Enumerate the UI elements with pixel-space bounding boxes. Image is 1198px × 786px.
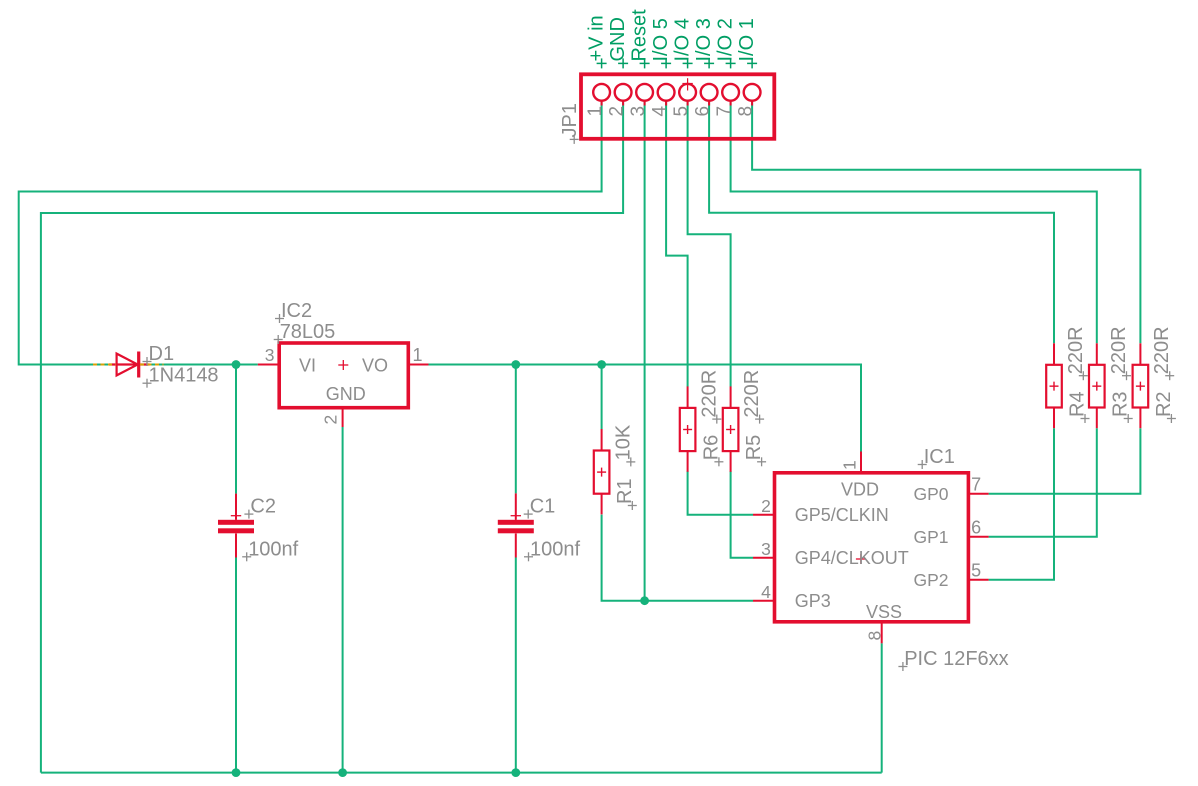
- svg-text:220R: 220R: [741, 370, 763, 418]
- R4 name label: [1067, 391, 1090, 423]
- IC1 pin number 6: [971, 518, 981, 538]
- C2 value label 100nf: [242, 538, 298, 561]
- IC1 pin name GP2: [913, 570, 948, 590]
- svg-text:GP0: GP0: [913, 484, 948, 504]
- JP1 part origin cross at pin5: [682, 78, 692, 90]
- svg-text:I/O 4: I/O 4: [672, 18, 694, 61]
- svg-text:C2: C2: [250, 496, 276, 518]
- svg-text:7: 7: [714, 106, 735, 117]
- IC2 part origin cross (red): [338, 360, 348, 370]
- wire JP1 pin8 to R2 top: [752, 101, 1140, 344]
- svg-text:GND: GND: [607, 17, 629, 61]
- wire R6 bottom to IC1 GP5 pin2: [688, 471, 753, 515]
- svg-text:220R: 220R: [1108, 326, 1130, 374]
- wire JP1 pin3 Reset down to GP3 node: [644, 101, 646, 601]
- svg-text:6: 6: [693, 106, 714, 117]
- wire R1 bottom to IC1 GP3 pin4: [602, 515, 753, 601]
- IC1 pin name GP3: [795, 591, 831, 611]
- JP1 net name labels (+V in GND Reset I/O): [586, 9, 759, 69]
- svg-text:R1: R1: [614, 478, 636, 504]
- svg-text:2: 2: [321, 415, 341, 425]
- IC1 pin number 1: [840, 460, 860, 470]
- svg-text:VSS: VSS: [866, 602, 902, 622]
- svg-text:100nf: 100nf: [248, 538, 298, 560]
- svg-text:10K: 10K: [612, 424, 634, 460]
- junction C2 / GND rail: [232, 768, 241, 777]
- D1 value label 1N4148: [143, 365, 219, 388]
- wire regulator VO to VDD rail with branches: [429, 365, 862, 452]
- svg-text:1: 1: [413, 345, 423, 365]
- IC2 reference label: [275, 300, 312, 323]
- resistor R4 220R: [1046, 343, 1062, 428]
- svg-text:220R: 220R: [1151, 326, 1173, 374]
- svg-text:PIC 12F6xx: PIC 12F6xx: [904, 648, 1008, 670]
- resistor R6 220R: [680, 386, 696, 471]
- wire IC2 GND pin to bottom rail: [342, 427, 344, 773]
- svg-text:R5: R5: [743, 435, 765, 461]
- connector JP1: [581, 74, 774, 139]
- R2 value label 220R: [1151, 326, 1174, 380]
- svg-text:8: 8: [736, 106, 757, 117]
- IC1 pin name GP0: [913, 484, 948, 504]
- IC2 pin name VI: [299, 356, 316, 376]
- wire JP1 pin5 to R5 top: [688, 101, 731, 387]
- svg-text:Reset: Reset: [629, 9, 651, 62]
- svg-text:D1: D1: [149, 343, 175, 365]
- svg-text:1N4148: 1N4148: [149, 365, 219, 387]
- svg-text:R3: R3: [1110, 391, 1132, 417]
- wire IC1 VSS to bottom rail: [881, 643, 883, 772]
- svg-text:5: 5: [971, 561, 981, 581]
- svg-text:3: 3: [761, 539, 771, 559]
- IC1 pin number 8: [865, 631, 885, 641]
- R3 value label 220R: [1108, 326, 1131, 380]
- svg-text:4: 4: [761, 582, 771, 602]
- R1 name label: [614, 478, 637, 510]
- IC2 pin name GND: [326, 384, 366, 404]
- svg-text:5: 5: [671, 106, 692, 117]
- IC2 pin name VO: [362, 356, 388, 376]
- D1 name label: [143, 343, 175, 366]
- IC2 value label 78L05: [274, 321, 336, 344]
- resistor R2 220R: [1133, 343, 1149, 428]
- IC1 pin name VDD: [841, 480, 879, 500]
- wire C2 branch down from +V input node: [235, 365, 237, 494]
- IC1 value label PIC 12F6xx: [898, 648, 1008, 671]
- svg-text:GP3: GP3: [795, 591, 831, 611]
- C2 name label: [244, 496, 276, 519]
- capacitor C2 100nf: [218, 494, 254, 558]
- svg-text:78L05: 78L05: [280, 321, 336, 343]
- svg-text:6: 6: [971, 518, 981, 538]
- junction 5V rail / C1 node: [511, 360, 520, 369]
- wire IC1 GP1 pin6 to R3 bottom: [989, 428, 1097, 536]
- wire IC1 GP0 pin7 to R2 bottom: [989, 428, 1141, 493]
- junction Reset / GP3 node: [640, 596, 649, 605]
- wire R1 top branch from 5V rail: [601, 365, 603, 430]
- junction IC2 GND / GND rail: [338, 768, 347, 777]
- IC2 pin number 1: [413, 345, 423, 365]
- capacitor C1 100nf: [498, 493, 534, 557]
- wire segment diode anode feed: [94, 364, 110, 366]
- wire R5 bottom to IC1 GP4 pin3: [731, 471, 753, 558]
- IC1 pin name VSS: [866, 602, 902, 622]
- svg-text:VI: VI: [299, 356, 316, 376]
- svg-text:1: 1: [585, 106, 606, 117]
- IC1 part origin cross (red): [856, 554, 866, 564]
- IC1 pin number 2: [761, 496, 771, 516]
- resistor R3 220R: [1089, 343, 1105, 428]
- IC1 pin name GP5/CLKIN: [795, 505, 889, 525]
- svg-text:R6: R6: [700, 435, 722, 461]
- C1 value label 100nf: [524, 538, 580, 561]
- wire C1 branch down from 5V rail: [515, 365, 517, 494]
- wire JP1 pin6 to R4 top: [709, 101, 1054, 344]
- svg-text:3: 3: [265, 345, 275, 365]
- C1 name label: [524, 496, 556, 519]
- junction 5V rail / R1 node: [597, 360, 606, 369]
- svg-text:GND: GND: [326, 384, 366, 404]
- svg-text:I/O 1: I/O 1: [736, 18, 758, 61]
- svg-text:GP5/CLKIN: GP5/CLKIN: [795, 505, 889, 525]
- wire C2 bottom to GND rail: [235, 558, 237, 773]
- svg-text:220R: 220R: [698, 370, 720, 418]
- R4 value label 220R: [1065, 326, 1088, 380]
- R5 value label 220R: [741, 370, 764, 424]
- svg-text:1: 1: [840, 460, 860, 470]
- diode D1 1N4148: [109, 352, 150, 378]
- svg-text:GP2: GP2: [913, 570, 948, 590]
- svg-text:I/O 3: I/O 3: [693, 18, 715, 61]
- svg-text:GP4/CLKOUT: GP4/CLKOUT: [795, 548, 909, 568]
- IC1 pin number 4: [761, 582, 771, 602]
- wire JP1 pin2 to bottom GND rail (net GND): [41, 101, 623, 773]
- svg-text:2: 2: [607, 106, 628, 117]
- svg-text:4: 4: [650, 106, 671, 117]
- svg-text:+V in: +V in: [586, 15, 608, 61]
- IC1 pin number 7: [971, 475, 981, 495]
- svg-text:IC1: IC1: [924, 446, 955, 468]
- JP1 reference label: [559, 103, 581, 144]
- R1 value label 10K: [612, 424, 635, 466]
- IC2 pin number 3: [265, 345, 275, 365]
- svg-text:7: 7: [971, 475, 981, 495]
- svg-text:JP1: JP1: [559, 103, 581, 137]
- svg-text:GP1: GP1: [913, 527, 948, 547]
- junction +V input / C2 / D1 node: [232, 360, 241, 369]
- IC IC1 PIC 12F6xx body: [753, 452, 989, 644]
- diode pin overlap marks (yellow): [93, 364, 164, 366]
- resistor R5 220R: [723, 386, 739, 471]
- resistor R1 10K: [594, 429, 610, 514]
- R3 name label: [1110, 391, 1133, 423]
- svg-text:C1: C1: [530, 496, 556, 518]
- IC1 pin name GP4/CLKOUT: [795, 548, 909, 568]
- op-amp style box IC2 voltage regulator: [258, 343, 429, 427]
- svg-text:R2: R2: [1153, 391, 1175, 417]
- wire JP1 pin1 to +V input rail (net +V in): [19, 101, 602, 365]
- svg-text:2: 2: [761, 496, 771, 516]
- junction C1 / GND rail: [511, 768, 520, 777]
- R6 value label 220R: [698, 370, 721, 424]
- JP1 pin red stubs below pads: [602, 101, 753, 106]
- IC1 pin number 3: [761, 539, 771, 559]
- IC1 pin name GP1: [913, 527, 948, 547]
- svg-text:8: 8: [865, 631, 885, 641]
- R6 name label: [700, 435, 723, 467]
- svg-text:IC2: IC2: [281, 300, 312, 322]
- JP1 pin numbers 1-8: [585, 106, 757, 117]
- R5 name label: [743, 435, 766, 467]
- R2 name label: [1153, 391, 1176, 423]
- svg-text:VO: VO: [362, 356, 388, 376]
- wire bottom GND rail: [41, 772, 882, 774]
- svg-text:I/O 5: I/O 5: [650, 18, 672, 61]
- wire IC1 GP2 pin5 to R4 bottom: [989, 428, 1054, 579]
- wire JP1 pin4 to R6 top: [666, 101, 688, 387]
- svg-text:VDD: VDD: [841, 480, 879, 500]
- svg-text:100nf: 100nf: [530, 538, 580, 560]
- IC1 reference label: [918, 446, 955, 469]
- IC1 pin number 5: [971, 561, 981, 581]
- IC2 pin number 2: [321, 415, 341, 425]
- svg-text:I/O 2: I/O 2: [715, 18, 737, 61]
- wire JP1 pin7 to R3 top: [731, 101, 1097, 344]
- svg-text:220R: 220R: [1065, 326, 1087, 374]
- svg-text:3: 3: [628, 106, 649, 117]
- wire diode cathode to regulator VI: [149, 364, 258, 366]
- wire C1 bottom to GND rail: [515, 558, 517, 773]
- svg-text:R4: R4: [1067, 391, 1089, 417]
